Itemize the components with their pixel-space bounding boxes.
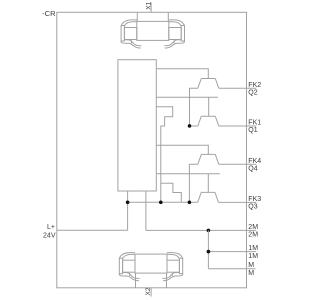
svg-text:24V: 24V — [43, 233, 56, 240]
node 2M — [207, 229, 211, 233]
wire 2M riser from controller — [145, 191, 147, 230]
pin X1 right — [167, 12, 169, 21]
svg-text:M: M — [248, 262, 254, 269]
bottom rail — [128, 201, 198, 203]
wire Q4 output FK4 — [219, 163, 256, 165]
svg-text:1M: 1M — [248, 253, 258, 260]
wire M — [208, 268, 255, 270]
transistor Q4 — [198, 154, 219, 164]
wire M drop — [207, 230, 209, 268]
svg-text:L+: L+ — [47, 224, 55, 231]
svg-text:Q4: Q4 — [248, 166, 257, 173]
wire Q3 output FK3 — [219, 201, 257, 203]
controller block (inner rectangle) — [118, 60, 156, 191]
node rail staircase — [159, 201, 163, 205]
wire Q4 emitter left — [189, 164, 197, 202]
staircase branch to rail — [161, 183, 182, 202]
svg-text:-CR: -CR — [42, 9, 56, 18]
svg-text:FK2: FK2 — [248, 82, 261, 89]
pin X1 left — [136, 12, 138, 21]
svg-text:2M: 2M — [248, 232, 258, 239]
L+ 24V supply line — [57, 229, 128, 231]
svg-text:Q3: Q3 — [248, 204, 257, 211]
transistor Q4 drive wire — [156, 145, 208, 154]
pin X2 right — [166, 273, 168, 288]
node Q1/Q2 emitter junction — [188, 124, 192, 128]
transistor Q1 drive wire — [156, 97, 218, 116]
wire Q2 output FK2 — [219, 87, 256, 89]
device box -CR — [57, 12, 247, 288]
svg-text:X2: X2 — [145, 287, 152, 295]
node rail L+ — [126, 201, 130, 205]
wire 2M — [146, 229, 256, 231]
svg-text:X1: X1 — [146, 1, 153, 9]
node rail Q4 emitter — [188, 201, 192, 205]
wire Q2 emitter left — [190, 88, 198, 126]
X2 tick — [150, 288, 152, 297]
svg-text:Q1: Q1 — [248, 127, 257, 134]
svg-text:1M: 1M — [248, 245, 258, 252]
svg-text:M: M — [248, 270, 254, 277]
wire Q1 emitter left — [190, 125, 198, 127]
connector X2 — [119, 253, 183, 281]
wire L+ riser to rail — [127, 191, 129, 230]
X1 tick — [150, 3, 152, 13]
transistor Q2 drive wire — [156, 69, 208, 79]
transistor Q3 drive wire — [156, 174, 220, 193]
svg-text:2M: 2M — [248, 224, 258, 231]
pin X2 left — [135, 273, 137, 288]
node 1M — [207, 250, 211, 254]
svg-text:FK4: FK4 — [248, 158, 261, 165]
svg-text:Q2: Q2 — [248, 90, 257, 97]
wire 1M — [208, 251, 256, 253]
svg-text:FK1: FK1 — [248, 120, 261, 127]
transistor Q3 — [198, 192, 219, 202]
staircase wire from controller to rail — [156, 107, 172, 203]
transistor Q1 — [198, 116, 219, 126]
transistor Q2 — [198, 79, 219, 89]
svg-text:FK3: FK3 — [248, 196, 261, 203]
wire Q1 output FK1 — [219, 125, 256, 127]
